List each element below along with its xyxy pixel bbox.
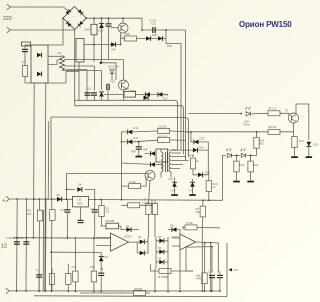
svg-text:R08: R08 — [125, 32, 130, 36]
wire rail drops — [94, 18, 123, 24]
wire R20 R21 grounds — [237, 172, 251, 181]
terminal minus bottom — [6, 288, 10, 294]
wire input block verticals down — [34, 83, 46, 291]
transformer TR1 winding B — [169, 152, 171, 172]
wire rail bottom — [10, 290, 220, 292]
wire LED to R12 to T3 — [252, 113, 290, 116]
diode DB2 — [37, 72, 42, 77]
wire D41 — [155, 165, 162, 170]
wire diodes to node — [151, 30, 166, 44]
capacitor C8 — [98, 273, 104, 276]
wire R48 R40 — [75, 238, 94, 291]
wire bridge left corner down — [48, 18, 63, 45]
ground C30 — [136, 156, 143, 158]
node dot bridge right — [85, 17, 87, 19]
wire T4 base path — [122, 174, 147, 200]
node dots LED row — [236, 155, 238, 157]
svg-text:C15: C15 — [110, 80, 115, 84]
ground R21 — [247, 181, 254, 183]
ground D19 — [306, 156, 313, 158]
resistor R19 — [292, 137, 297, 148]
resistor R9 — [200, 206, 205, 217]
wire upper loop 272 — [186, 270, 193, 272]
wire top-right corner down — [185, 30, 187, 160]
svg-text:C43: C43 — [189, 189, 194, 193]
svg-text:Орион PW150: Орион PW150 — [239, 20, 292, 29]
svg-text:R18 3k: R18 3k — [268, 125, 277, 129]
svg-text:R21: R21 — [254, 163, 259, 167]
diode D9 — [172, 227, 177, 232]
wire snubber row — [104, 93, 168, 95]
LED indicator V1 — [227, 153, 231, 157]
optocoupler U4 box S1200B — [106, 223, 119, 229]
optocoupler U2 box — [156, 149, 168, 162]
bridge diode D01 — [65, 9, 71, 15]
diode DB1 — [37, 53, 42, 58]
svg-text:D6: D6 — [158, 246, 162, 250]
diode D22 left — [128, 139, 133, 144]
wire TR1 taps to bundle — [171, 150, 189, 169]
diode D18 — [198, 172, 203, 177]
transistor T3 — [289, 113, 299, 123]
resistor R7 — [128, 187, 140, 192]
svg-text:R19: R19 — [299, 139, 304, 143]
capacitor C30 — [136, 146, 142, 149]
diode D15 — [194, 140, 199, 145]
diode D5 — [159, 238, 164, 243]
svg-text:R 10k: R 10k — [129, 180, 136, 184]
svg-text:W4: W4 — [58, 51, 62, 55]
wire C10 C5 — [212, 273, 220, 291]
node junction arrow — [100, 61, 103, 64]
wire 0V sense — [51, 251, 101, 253]
resistor R40 — [91, 271, 96, 282]
diode D17 — [144, 95, 149, 100]
node dots rail 238 — [16, 237, 18, 239]
wire outer bottom — [34, 243, 227, 297]
diode D16 up — [99, 92, 104, 97]
svg-text:D13 0.5A: D13 0.5A — [108, 65, 119, 69]
node dots rail bottom — [16, 290, 18, 292]
wire U1a pins — [96, 238, 137, 246]
svg-text:R11: R11 — [134, 136, 139, 140]
svg-text:D40: D40 — [99, 29, 104, 33]
diode D3 — [140, 251, 145, 256]
node dot K2 wire — [93, 44, 95, 46]
wire rail 101.5 — [75, 106, 184, 154]
node dot fan — [240, 113, 242, 115]
wire aux vertical — [47, 121, 50, 200]
diode D08a — [146, 36, 151, 41]
svg-text:5Г 0R6Б: 5Г 0R6Б — [158, 275, 168, 279]
diode D06 power — [111, 42, 116, 47]
op-amp U1a — [111, 233, 129, 251]
diode D07 up — [99, 23, 104, 28]
resistor R0R6 box — [159, 269, 171, 274]
svg-text:D4: D4 — [78, 182, 82, 186]
node dots bottom rail right — [154, 291, 156, 293]
svg-text:D5: D5 — [158, 235, 162, 239]
wire y228 to boundary — [202, 227, 220, 229]
transistor T2 — [119, 80, 129, 90]
resistor R25 horizontal — [128, 203, 140, 208]
LED indicator V2 — [241, 153, 245, 157]
diode D41 left — [150, 162, 155, 167]
wire diode matrix — [137, 237, 168, 268]
resistor RX vertical — [22, 66, 27, 77]
svg-text:R17: R17 — [190, 154, 195, 158]
resistor R05 — [158, 137, 170, 142]
diode D37 up — [99, 257, 104, 262]
node dots opamp out — [210, 242, 212, 244]
resistor R48 — [73, 271, 78, 282]
resistor R10 — [206, 181, 211, 192]
wire rail 98 — [75, 100, 178, 150]
svg-text:D4: D4 — [158, 257, 162, 261]
wire rail 119.5 boundary — [51, 117, 189, 157]
svg-text:D08: D08 — [167, 44, 172, 48]
wire bridge - output down — [74, 30, 76, 106]
diode D11 left — [145, 92, 150, 97]
svg-text:R: R — [144, 198, 146, 202]
wire vreg top run — [67, 132, 150, 174]
ground R20 — [233, 181, 240, 183]
svg-text:D19: D19 — [313, 143, 318, 147]
wire verticals to rail — [202, 228, 210, 291]
wire D9 R30k — [168, 226, 202, 234]
wire primary horizontals — [66, 60, 124, 72]
node dot sense — [50, 251, 52, 253]
resistor R18 — [268, 129, 280, 134]
wire R17 D18 — [193, 155, 209, 181]
node dot bypass — [66, 189, 68, 191]
wire R9 — [201, 200, 204, 227]
svg-text:D37: D37 — [104, 255, 109, 259]
svg-text:Пилот: Пилот — [243, 123, 251, 127]
wire mid verticals down — [155, 250, 180, 291]
wire R19 to ground — [294, 147, 296, 156]
resistor R20 — [234, 161, 239, 172]
node dot R24 top — [256, 131, 258, 133]
svg-text:LM: LM — [78, 198, 82, 202]
resistor R13 — [50, 210, 55, 221]
svg-text:12: 12 — [1, 244, 7, 250]
svg-text:R48: R48 — [72, 265, 77, 269]
diode D12 left — [158, 92, 163, 97]
wire R10 down — [208, 191, 210, 200]
svg-text:C16: C16 — [86, 87, 91, 91]
resistor R26v — [146, 204, 151, 215]
wire R45 — [80, 292, 150, 294]
transistor T4 — [145, 170, 155, 180]
wire R26v R27v — [149, 181, 156, 238]
wire D40s — [174, 178, 176, 195]
bridge diode D03 — [66, 21, 72, 27]
wire U1b feedback — [186, 247, 212, 273]
svg-text:D34: D34 — [199, 146, 204, 150]
svg-text:910: 910 — [260, 142, 265, 146]
svg-text:+C: +C — [121, 35, 125, 39]
svg-text:D18: D18 — [205, 171, 210, 175]
wire rail end vertical up — [222, 155, 224, 200]
wire choke feeds — [48, 56, 62, 64]
wire D15 D34 — [168, 132, 209, 175]
wire U1b pins — [172, 238, 218, 273]
diode D4 — [77, 187, 82, 192]
capacitor C10 — [209, 275, 215, 278]
wire R15 R05 runs — [122, 131, 191, 142]
resistor R24 — [254, 137, 259, 148]
svg-text:R20: R20 — [240, 163, 245, 167]
svg-text:C5: C5 — [217, 269, 221, 273]
svg-text:7805: 7805 — [77, 201, 83, 205]
wire D4 bypass — [67, 174, 95, 200]
svg-text:1.0: 1.0 — [90, 207, 94, 211]
svg-text:D40: D40 — [143, 148, 148, 152]
capacitor C20 — [64, 209, 70, 212]
transistor T1 — [118, 23, 128, 33]
wire R08 to diodes — [121, 38, 146, 40]
svg-text:600h: 600h — [85, 28, 91, 32]
svg-text:D13: D13 — [124, 87, 129, 91]
svg-text:D06: D06 — [152, 33, 157, 37]
node dot feedback — [211, 246, 213, 248]
node dot D22 — [121, 141, 123, 143]
capacitor C16 — [91, 92, 97, 95]
node dots rail 30 — [141, 29, 143, 31]
wire D43s — [192, 179, 194, 194]
diode D6 — [159, 249, 164, 254]
wire T1 base — [111, 27, 118, 29]
svg-text:0.47: 0.47 — [60, 208, 66, 212]
capacitor C06 — [106, 23, 112, 26]
capacitor CX — [22, 49, 28, 52]
svg-text:R4Б: R4Б — [196, 277, 201, 281]
capacitor C22 — [92, 209, 98, 212]
capacitor C6 — [36, 274, 42, 277]
transformer TR1 core — [165, 152, 167, 172]
svg-text:C8: C8 — [100, 267, 104, 271]
wire rail 238 — [13, 237, 111, 240]
transformer TR1 winding A — [161, 152, 163, 172]
diode D40s up — [172, 182, 177, 187]
bridge rectifier D01-D04 — [63, 6, 86, 29]
wire vreg caps — [67, 199, 94, 238]
wire R18 path — [186, 123, 294, 137]
snubber capacitor C13 — [85, 92, 91, 95]
wire D08 anode run — [166, 44, 181, 150]
node dots rail plus — [16, 198, 18, 200]
svg-text:41/2ОБ: 41/2ОБ — [158, 125, 167, 129]
capacitor C1 — [14, 241, 20, 244]
capacitor C21 under box — [78, 220, 84, 223]
svg-text:C10: C10 — [168, 177, 173, 181]
resistor R4 — [202, 273, 207, 284]
svg-text:220: 220 — [3, 16, 12, 22]
svg-text:LM324: LM324 — [124, 235, 132, 239]
node L input terminal — [7, 4, 11, 10]
svg-text:R11: R11 — [27, 209, 32, 213]
resistor R21 — [248, 161, 253, 172]
diode D08b — [158, 36, 163, 41]
svg-text:R40: R40 — [90, 265, 95, 269]
wire R5 — [101, 200, 103, 227]
diode D1 — [127, 227, 132, 232]
capacitor C3 — [23, 241, 29, 244]
wire N to bridge — [11, 29, 75, 31]
svg-text:А0П: А0П — [131, 150, 136, 154]
wire LED row — [223, 155, 257, 161]
wire R4 — [186, 271, 205, 291]
wire R25 — [122, 200, 153, 206]
EMI choke L1 zigzag — [60, 56, 65, 71]
resistor R30k — [185, 225, 197, 230]
svg-text:206: 206 — [111, 48, 116, 52]
wire component bottoms — [94, 27, 121, 63]
wire R0R6 — [151, 248, 187, 272]
input block box — [31, 45, 48, 83]
box D13s — [124, 92, 136, 98]
svg-text:DK: DK — [57, 193, 61, 197]
capacitor C12 — [152, 27, 155, 33]
wire cap to RX — [24, 45, 26, 83]
driver box K2 — [76, 39, 84, 63]
wire L to bridge — [11, 7, 69, 12]
svg-text:2R1 2k: 2R1 2k — [268, 107, 277, 111]
svg-text:D5: D5 — [138, 235, 142, 239]
resistor R22 — [49, 274, 54, 285]
regulator U3 7805 box — [73, 196, 89, 207]
resistor R11 — [37, 210, 42, 221]
resistor R5 — [99, 206, 104, 217]
node N input terminal — [7, 27, 11, 33]
svg-text:R450B: R450B — [134, 287, 142, 291]
ground R19 — [291, 156, 298, 158]
terminal +7/0 — [229, 268, 232, 271]
wire bridge + output to rail — [86, 18, 185, 30]
resistor R27v — [152, 204, 157, 215]
diode D13 — [110, 69, 114, 73]
diode D7 — [159, 260, 164, 265]
op-amp U1b — [180, 234, 196, 250]
diode D34 — [193, 148, 198, 153]
ground D40s — [171, 194, 178, 196]
wire opto out — [101, 226, 139, 230]
resistor R45 box — [134, 291, 146, 296]
wire left verticals below rail — [17, 199, 52, 291]
wire boundary vertical left — [50, 117, 52, 199]
svg-text:D1: D1 — [126, 224, 130, 228]
resistor R08 — [125, 36, 137, 41]
diode D21 left — [128, 130, 133, 135]
resistor R23 — [66, 274, 71, 285]
diode D2 — [140, 239, 145, 244]
wire R24 feed — [256, 132, 258, 156]
svg-text:4k6: 4k6 — [27, 212, 32, 216]
svg-text:+7/0: +7/0 — [233, 268, 239, 272]
wire D37 — [100, 252, 102, 291]
node dot R18 wire — [190, 131, 192, 133]
svg-text:45ООБ: 45ООБ — [158, 135, 167, 139]
svg-text:D17: D17 — [163, 97, 168, 101]
node dot bridge left — [62, 17, 64, 19]
LED pilot — [246, 112, 250, 116]
svg-text:C12: C12 — [151, 22, 156, 26]
svg-text:407: 407 — [22, 60, 27, 64]
wire R23 leads — [39, 264, 68, 291]
wire TR1 pins — [161, 149, 171, 178]
svg-text:3.9: 3.9 — [106, 210, 110, 214]
svg-text:C40: C40 — [171, 189, 176, 193]
svg-text:C10: C10 — [208, 269, 213, 273]
resistor R12 — [268, 111, 280, 116]
node dot C30 — [138, 141, 140, 143]
ground D43s — [189, 194, 196, 196]
diode D40 opto — [150, 151, 155, 156]
relay box K1 — [91, 24, 97, 35]
svg-text:S1200B: S1200B — [105, 219, 115, 223]
bridge diode D02 — [78, 9, 84, 15]
fuse box F1 — [22, 42, 31, 46]
resistor R17 — [190, 158, 195, 169]
wire primary verticals — [79, 57, 124, 100]
svg-text:10k: 10k — [196, 210, 201, 214]
node dots on rail 18 — [93, 17, 95, 19]
wire D19 to ground — [308, 147, 310, 156]
capacitor C5 — [217, 275, 223, 278]
wire opto — [145, 153, 156, 155]
wire rail plus — [10, 199, 223, 200]
diode D43s up — [190, 182, 195, 187]
svg-text:R12: R12 — [134, 126, 139, 130]
wire K2 output — [84, 44, 121, 46]
diode DK — [57, 197, 62, 202]
wire choke outputs — [62, 60, 109, 71]
svg-text:+: + — [2, 198, 5, 204]
resistor R15 — [158, 128, 170, 133]
wire T3 collector — [296, 104, 309, 140]
wire C30 — [138, 142, 140, 156]
resistor R14 base — [129, 184, 141, 189]
svg-text:D9: D9 — [170, 224, 174, 228]
bridge diode D04 — [78, 21, 84, 27]
wire fan feed — [189, 113, 242, 115]
wires around input block — [25, 45, 66, 83]
svg-text:D15: D15 — [200, 137, 205, 141]
svg-text:R 30k: R 30k — [186, 221, 193, 225]
diode D19 down — [306, 142, 311, 147]
